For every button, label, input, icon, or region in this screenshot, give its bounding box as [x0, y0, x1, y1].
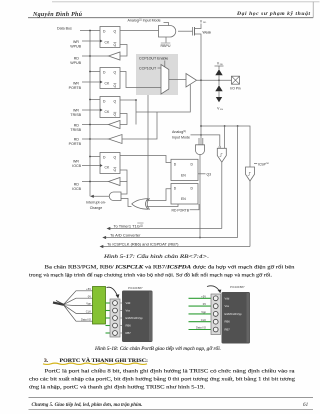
svg-text:Đại học sư phạm kỹ thuật: Đại học sư phạm kỹ thuật [236, 10, 310, 17]
svg-text:I/O Pin: I/O Pin [230, 87, 240, 91]
svg-text:CK: CK [105, 41, 110, 45]
svg-text:Vpp: Vpp [201, 310, 206, 314]
svg-text:Weak: Weak [203, 30, 212, 34]
svg-text:Q: Q [114, 168, 117, 172]
svg-text:IOCB: IOCB [72, 164, 81, 168]
svg-text:cho các bit xuất nhập của port: cho các bit xuất nhập của portC, bit địn… [29, 376, 295, 383]
svg-text:TRISB: TRISB [70, 113, 81, 117]
svg-text:CK: CK [105, 166, 110, 170]
svg-text:Q: Q [114, 70, 117, 74]
svg-text:Q: Q [114, 113, 117, 117]
svg-text:E3/MCLR/Vpp: E3/MCLR/Vpp [126, 316, 144, 320]
svg-text:EN: EN [181, 197, 186, 201]
svg-text:TM: TM [266, 163, 269, 165]
svg-text:CK: CK [105, 110, 110, 114]
svg-text:Nguyễn Đình Phú: Nguyễn Đình Phú [32, 11, 83, 18]
svg-text:Q: Q [114, 84, 117, 88]
svg-text:RB7: RB7 [225, 328, 231, 332]
svg-text:To Timer1 T1G(1): To Timer1 T1G(1) [114, 223, 144, 228]
svg-text:Hình 5-17: Cấu hình chân RB<7:: Hình 5-17: Cấu hình chân RB<7:4>. [103, 253, 209, 260]
svg-text:Interrupt-on-: Interrupt-on- [86, 201, 107, 205]
svg-text:Q: Q [114, 43, 117, 47]
svg-text:To ICSPCLK (RB6) and ICSPDAT (: To ICSPCLK (RB6) and ICSPDAT (RB7) [107, 241, 179, 246]
svg-text:Vpp: Vpp [86, 302, 91, 306]
svg-text:Analog(1) Input Mode: Analog(1) Input Mode [128, 18, 161, 22]
svg-text:Q: Q [114, 155, 117, 159]
svg-text:0V: 0V [88, 294, 91, 298]
svg-text:Data I/O: Data I/O [81, 317, 91, 321]
svg-text:E3/MCLR/Vpp: E3/MCLR/Vpp [225, 312, 243, 316]
svg-text:Q: Q [114, 99, 117, 103]
svg-text:+5V: +5V [86, 287, 91, 291]
svg-text:+5V: +5V [201, 294, 206, 298]
svg-text:CK: CK [105, 82, 110, 86]
svg-text:RB7: RB7 [126, 331, 132, 335]
svg-text:WPUB: WPUB [70, 61, 81, 65]
svg-text:Q3: Q3 [207, 172, 212, 176]
svg-text:Input Mode: Input Mode [172, 135, 190, 139]
svg-text:RB6: RB6 [126, 324, 132, 328]
svg-text:61: 61 [303, 402, 309, 408]
svg-text:Q: Q [114, 29, 117, 33]
svg-text:CCP1OUT Enable: CCP1OUT Enable [139, 56, 168, 60]
svg-text:RB6: RB6 [225, 320, 231, 324]
svg-text:Hình 5-18: Các chân PortB giao: Hình 5-18: Các chân PortB giao tiếp với … [94, 345, 221, 352]
svg-text:CLK: CLK [201, 318, 206, 322]
svg-text:WPUB: WPUB [70, 44, 81, 48]
svg-text:ứng là nhập, portC và thanh gh: ứng là nhập, portC và thanh ghi định hướ… [29, 385, 206, 391]
svg-text:PIC16F887: PIC16F887 [230, 285, 245, 289]
svg-text:0V: 0V [203, 302, 206, 306]
svg-text:PORTB: PORTB [69, 142, 82, 146]
svg-text:trong và mạch lập trình để nạp: trong và mạch lập trình để nạp chương tr… [29, 272, 273, 279]
svg-text:CLK: CLK [86, 310, 91, 314]
svg-text:Vss: Vss [225, 304, 230, 308]
svg-text:DD: DD [203, 22, 207, 24]
svg-text:RBPU: RBPU [161, 44, 171, 48]
svg-text:Ba chân RB3/PGM, RB6/ ICSPCLK: Ba chân RB3/PGM, RB6/ ICSPCLK và RB7/ICS… [45, 264, 295, 271]
svg-text:DD: DD [220, 64, 224, 66]
svg-text:3.: 3. [44, 358, 49, 364]
svg-text:Change: Change [90, 206, 103, 210]
svg-text:TRISB: TRISB [70, 128, 81, 132]
svg-text:To A/D Converter: To A/D Converter [110, 232, 141, 237]
svg-text:Vdd: Vdd [225, 296, 230, 300]
svg-text:PIC16F887: PIC16F887 [128, 286, 143, 290]
svg-text:PORTB: PORTB [69, 86, 82, 90]
svg-text:Vss: Vss [126, 309, 131, 313]
svg-text:IOCB: IOCB [72, 187, 81, 191]
svg-text:EN: EN [181, 173, 186, 177]
svg-text:Data I/O: Data I/O [196, 326, 206, 330]
svg-text:Data Bus: Data Bus [57, 27, 72, 31]
svg-text:Chương 5. Giao tiếp led, led,: Chương 5. Giao tiếp led, led, phím đơn, … [32, 401, 143, 408]
svg-text:CCP1OUT: CCP1OUT [139, 67, 157, 71]
svg-text:PortC là port hai chiều 8 bit,: PortC là port hai chiều 8 bit, thanh ghi… [45, 368, 296, 375]
svg-text:RD PORTB: RD PORTB [172, 208, 190, 212]
svg-text:Vdd: Vdd [126, 301, 131, 305]
